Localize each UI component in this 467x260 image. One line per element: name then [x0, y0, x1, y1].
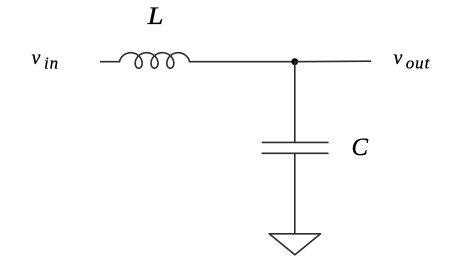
svg-text:L: L — [147, 3, 164, 30]
wire junction to output — [295, 60, 371, 63]
node junction dot — [291, 58, 298, 65]
svg-text:C: C — [352, 134, 369, 161]
wire input lead — [101, 61, 120, 63]
svg-text:vout: vout — [394, 47, 431, 73]
inductor L coil — [120, 53, 190, 68]
svg-text:vin: vin — [32, 47, 60, 73]
capacitor C top plate — [262, 141, 328, 143]
ground symbol (open triangle) — [269, 234, 320, 255]
wire inductor to junction — [190, 61, 295, 63]
wire junction down to capacitor — [294, 62, 296, 143]
capacitor C bottom plate — [262, 152, 328, 154]
wire capacitor to ground — [294, 153, 296, 234]
